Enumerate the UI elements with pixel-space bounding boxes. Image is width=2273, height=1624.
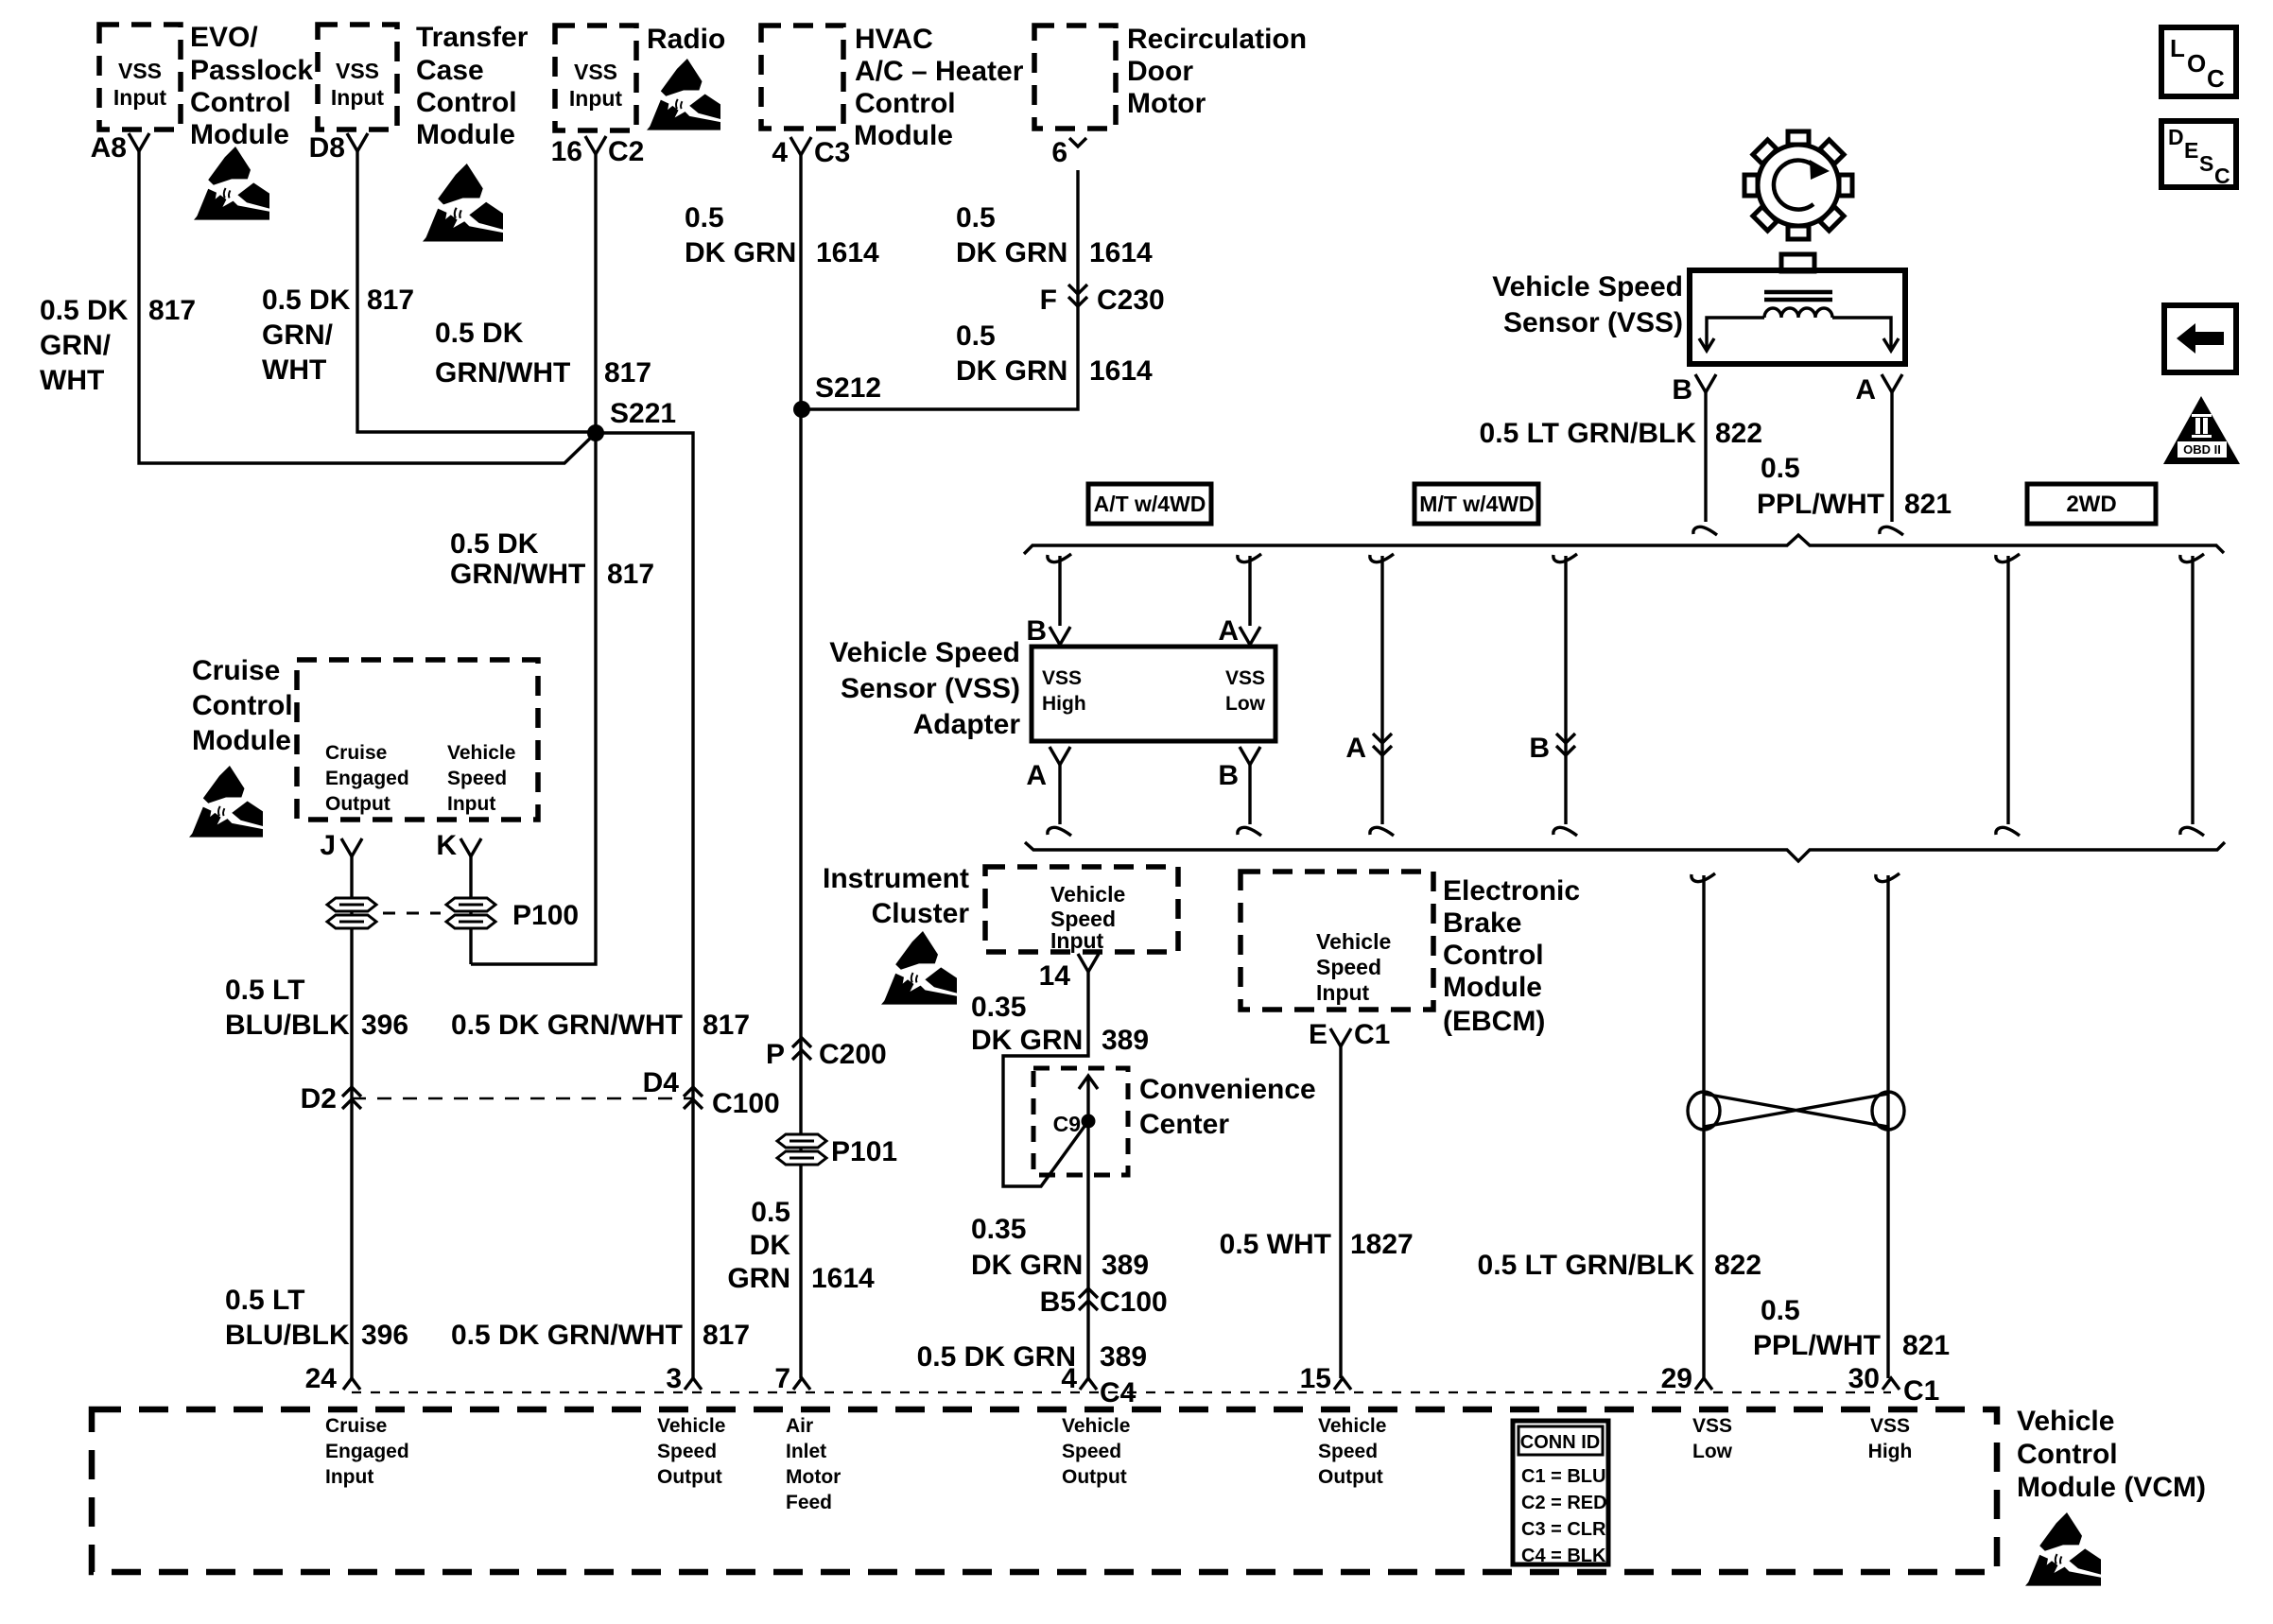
svg-text:Control: Control bbox=[416, 87, 517, 118]
svg-text:7: 7 bbox=[774, 1363, 790, 1394]
svg-text:Adapter: Adapter bbox=[913, 709, 1021, 740]
svg-text:BLU/BLK: BLU/BLK bbox=[225, 1010, 350, 1041]
svg-text:C2: C2 bbox=[608, 136, 644, 167]
svg-text:0.5 LT GRN/BLK: 0.5 LT GRN/BLK bbox=[1480, 418, 1697, 449]
svg-text:0.5: 0.5 bbox=[1761, 453, 1800, 484]
svg-text:2WD: 2WD bbox=[2066, 492, 2116, 517]
svg-text:Vehicle: Vehicle bbox=[657, 1415, 725, 1437]
svg-text:BLU/BLK: BLU/BLK bbox=[225, 1320, 350, 1351]
svg-text:24: 24 bbox=[305, 1363, 338, 1394]
svg-text:1614: 1614 bbox=[811, 1263, 875, 1294]
svg-text:3: 3 bbox=[666, 1363, 682, 1394]
svg-text:DK GRN: DK GRN bbox=[685, 237, 796, 268]
svg-text:D4: D4 bbox=[643, 1067, 680, 1098]
svg-text:M/T w/4WD: M/T w/4WD bbox=[1419, 492, 1534, 516]
svg-text:Input: Input bbox=[1316, 980, 1370, 1005]
svg-text:Recirculation: Recirculation bbox=[1127, 24, 1307, 55]
svg-text:Output: Output bbox=[657, 1466, 722, 1488]
svg-text:C4: C4 bbox=[1100, 1377, 1136, 1408]
svg-text:DK: DK bbox=[750, 1230, 791, 1261]
svg-text:C: C bbox=[2214, 164, 2230, 188]
svg-text:Speed: Speed bbox=[1318, 1441, 1378, 1462]
svg-text:Engaged: Engaged bbox=[325, 768, 409, 789]
svg-text:Output: Output bbox=[1062, 1466, 1127, 1488]
svg-text:Vehicle: Vehicle bbox=[2017, 1406, 2114, 1437]
svg-text:VSS: VSS bbox=[1692, 1415, 1732, 1437]
svg-text:0.5: 0.5 bbox=[1761, 1295, 1800, 1326]
svg-text:S221: S221 bbox=[610, 398, 676, 429]
svg-text:817: 817 bbox=[703, 1010, 750, 1041]
svg-text:DK GRN: DK GRN bbox=[956, 355, 1067, 387]
svg-text:C230: C230 bbox=[1097, 285, 1165, 316]
svg-text:Input: Input bbox=[569, 86, 623, 111]
svg-text:Control: Control bbox=[190, 87, 291, 118]
svg-text:Vehicle: Vehicle bbox=[1316, 929, 1391, 954]
svg-text:0.5 LT: 0.5 LT bbox=[225, 975, 304, 1006]
svg-text:Module (VCM): Module (VCM) bbox=[2017, 1472, 2206, 1503]
svg-text:0.5 DK GRN/WHT: 0.5 DK GRN/WHT bbox=[451, 1320, 683, 1351]
svg-text:Convenience: Convenience bbox=[1139, 1074, 1316, 1105]
svg-text:Center: Center bbox=[1139, 1109, 1229, 1140]
svg-text:Motor: Motor bbox=[786, 1466, 841, 1488]
svg-text:Case: Case bbox=[416, 55, 484, 86]
svg-text:Module: Module bbox=[190, 119, 289, 150]
svg-text:Output: Output bbox=[325, 793, 390, 815]
svg-text:C3: C3 bbox=[814, 137, 850, 168]
svg-text:0.5 DK GRN/WHT: 0.5 DK GRN/WHT bbox=[451, 1010, 683, 1041]
svg-text:P: P bbox=[766, 1039, 785, 1070]
svg-text:C4 = BLK: C4 = BLK bbox=[1521, 1546, 1606, 1566]
svg-text:Inlet: Inlet bbox=[786, 1441, 826, 1462]
svg-text:Module: Module bbox=[192, 725, 291, 756]
svg-text:Brake: Brake bbox=[1443, 907, 1521, 939]
svg-text:0.5 DK: 0.5 DK bbox=[450, 528, 539, 560]
svg-text:O: O bbox=[2187, 49, 2206, 78]
svg-text:4: 4 bbox=[772, 137, 788, 168]
svg-text:1614: 1614 bbox=[1089, 355, 1153, 387]
svg-text:HVAC: HVAC bbox=[855, 24, 933, 55]
svg-text:Cruise: Cruise bbox=[325, 742, 387, 764]
svg-text:817: 817 bbox=[148, 295, 196, 326]
svg-text:VSS: VSS bbox=[118, 59, 162, 83]
svg-text:C1: C1 bbox=[1354, 1019, 1390, 1050]
svg-text:0.5 LT GRN/BLK: 0.5 LT GRN/BLK bbox=[1478, 1250, 1695, 1281]
svg-text:821: 821 bbox=[1902, 1330, 1950, 1361]
svg-text:Vehicle: Vehicle bbox=[1062, 1415, 1130, 1437]
svg-text:817: 817 bbox=[604, 357, 651, 389]
svg-text:Control: Control bbox=[2017, 1439, 2118, 1470]
svg-text:817: 817 bbox=[607, 559, 654, 590]
svg-text:821: 821 bbox=[1904, 489, 1952, 520]
svg-text:Door: Door bbox=[1127, 56, 1193, 87]
svg-text:Low: Low bbox=[1692, 1441, 1733, 1462]
svg-text:C1: C1 bbox=[1903, 1375, 1939, 1407]
svg-text:Air: Air bbox=[786, 1415, 813, 1437]
svg-text:A: A bbox=[1345, 733, 1366, 764]
svg-text:Sensor (VSS): Sensor (VSS) bbox=[841, 673, 1020, 704]
svg-text:Input: Input bbox=[113, 85, 167, 110]
svg-text:C1 = BLU: C1 = BLU bbox=[1521, 1466, 1605, 1487]
svg-text:D2: D2 bbox=[301, 1083, 337, 1114]
svg-text:GRN/WHT: GRN/WHT bbox=[435, 357, 570, 389]
svg-text:OBD II: OBD II bbox=[2183, 442, 2221, 457]
svg-text:B5: B5 bbox=[1040, 1287, 1076, 1318]
svg-text:1827: 1827 bbox=[1350, 1229, 1414, 1260]
svg-text:Speed: Speed bbox=[1062, 1441, 1121, 1462]
svg-text:GRN/: GRN/ bbox=[262, 320, 334, 351]
svg-text:S: S bbox=[2199, 151, 2213, 176]
svg-text:Cruise: Cruise bbox=[325, 1415, 387, 1437]
svg-text:VSS: VSS bbox=[336, 59, 379, 83]
svg-text:822: 822 bbox=[1714, 1250, 1761, 1281]
svg-text:D: D bbox=[2168, 125, 2184, 149]
svg-text:High: High bbox=[1042, 693, 1086, 715]
svg-text:Cluster: Cluster bbox=[872, 898, 970, 929]
svg-text:WHT: WHT bbox=[262, 354, 326, 386]
svg-text:1614: 1614 bbox=[1089, 237, 1153, 268]
svg-text:389: 389 bbox=[1102, 1250, 1149, 1281]
svg-text:B: B bbox=[1026, 615, 1047, 647]
svg-text:A: A bbox=[1855, 374, 1876, 406]
svg-text:4: 4 bbox=[1061, 1363, 1077, 1394]
svg-text:WHT: WHT bbox=[40, 365, 104, 396]
svg-text:F: F bbox=[1040, 285, 1057, 316]
svg-text:Radio: Radio bbox=[647, 24, 725, 55]
svg-text:DK GRN: DK GRN bbox=[971, 1250, 1083, 1281]
svg-text:0.5 DK: 0.5 DK bbox=[262, 285, 351, 316]
svg-text:C3 = CLR: C3 = CLR bbox=[1521, 1519, 1606, 1540]
svg-text:Passlock: Passlock bbox=[190, 55, 313, 86]
svg-text:6: 6 bbox=[1051, 137, 1067, 168]
svg-text:Engaged: Engaged bbox=[325, 1441, 409, 1462]
svg-text:B: B bbox=[1529, 733, 1550, 764]
svg-text:Module: Module bbox=[854, 120, 953, 151]
svg-text:Motor: Motor bbox=[1127, 88, 1206, 119]
svg-text:0.5 DK GRN: 0.5 DK GRN bbox=[917, 1341, 1076, 1373]
svg-text:0.5 WHT: 0.5 WHT bbox=[1220, 1229, 1331, 1260]
svg-text:Module: Module bbox=[416, 119, 515, 150]
svg-text:Speed: Speed bbox=[447, 768, 507, 789]
svg-text:A/C – Heater: A/C – Heater bbox=[855, 56, 1024, 87]
svg-text:C: C bbox=[2207, 64, 2225, 93]
svg-text:817: 817 bbox=[703, 1320, 750, 1351]
svg-text:Vehicle: Vehicle bbox=[1318, 1415, 1386, 1437]
svg-text:Control: Control bbox=[855, 88, 956, 119]
svg-text:0.5: 0.5 bbox=[751, 1197, 790, 1228]
svg-text:Vehicle: Vehicle bbox=[447, 742, 515, 764]
svg-text:Control: Control bbox=[192, 690, 293, 721]
svg-text:Input: Input bbox=[447, 793, 495, 815]
svg-text:389: 389 bbox=[1102, 1025, 1149, 1056]
svg-text:Transfer: Transfer bbox=[416, 22, 529, 53]
svg-text:Speed: Speed bbox=[1316, 955, 1381, 979]
svg-text:396: 396 bbox=[361, 1010, 408, 1041]
svg-text:Low: Low bbox=[1225, 693, 1266, 715]
svg-text:GRN: GRN bbox=[727, 1263, 790, 1294]
svg-text:29: 29 bbox=[1661, 1363, 1692, 1394]
svg-text:C100: C100 bbox=[1100, 1287, 1168, 1318]
svg-text:P101: P101 bbox=[831, 1136, 897, 1167]
svg-text:16: 16 bbox=[551, 136, 582, 167]
svg-text:0.5 DK: 0.5 DK bbox=[435, 318, 524, 349]
svg-text:B: B bbox=[1218, 760, 1239, 791]
svg-text:K: K bbox=[436, 830, 457, 861]
svg-text:C2 = RED: C2 = RED bbox=[1521, 1493, 1607, 1513]
svg-text:L: L bbox=[2170, 34, 2185, 62]
svg-text:0.5: 0.5 bbox=[956, 202, 996, 233]
svg-text:C9: C9 bbox=[1053, 1112, 1081, 1136]
svg-text:C200: C200 bbox=[819, 1039, 887, 1070]
svg-text:VSS: VSS bbox=[1225, 667, 1265, 689]
svg-text:CONN ID: CONN ID bbox=[1520, 1432, 1600, 1453]
svg-text:389: 389 bbox=[1100, 1341, 1147, 1373]
svg-text:822: 822 bbox=[1715, 418, 1762, 449]
svg-text:Vehicle: Vehicle bbox=[1050, 882, 1125, 907]
svg-text:E: E bbox=[1309, 1019, 1327, 1050]
svg-text:A: A bbox=[1218, 615, 1239, 647]
svg-text:A8: A8 bbox=[91, 132, 127, 164]
svg-text:Instrument: Instrument bbox=[823, 863, 969, 894]
svg-text:B: B bbox=[1672, 374, 1692, 406]
svg-text:0.35: 0.35 bbox=[971, 992, 1026, 1023]
svg-text:GRN/WHT: GRN/WHT bbox=[450, 559, 585, 590]
svg-text:Feed: Feed bbox=[786, 1492, 832, 1513]
svg-text:0.5 LT: 0.5 LT bbox=[225, 1285, 304, 1316]
svg-text:14: 14 bbox=[1039, 960, 1071, 992]
svg-text:VSS: VSS bbox=[574, 60, 617, 84]
svg-text:Input: Input bbox=[331, 85, 385, 110]
svg-text:GRN/: GRN/ bbox=[40, 330, 112, 361]
svg-text:396: 396 bbox=[361, 1320, 408, 1351]
svg-text:0.5: 0.5 bbox=[685, 202, 724, 233]
svg-text:Control: Control bbox=[1443, 940, 1544, 971]
svg-text:D8: D8 bbox=[309, 132, 345, 164]
svg-text:817: 817 bbox=[367, 285, 414, 316]
svg-text:A: A bbox=[1026, 760, 1047, 791]
svg-text:DK GRN: DK GRN bbox=[971, 1025, 1083, 1056]
svg-text:PPL/WHT: PPL/WHT bbox=[1753, 1330, 1881, 1361]
svg-text:Sensor (VSS): Sensor (VSS) bbox=[1503, 307, 1683, 338]
svg-text:(EBCM): (EBCM) bbox=[1443, 1006, 1545, 1037]
svg-text:Input: Input bbox=[1050, 928, 1104, 953]
svg-text:C100: C100 bbox=[712, 1088, 780, 1119]
svg-text:Cruise: Cruise bbox=[192, 655, 280, 686]
svg-text:A/T w/4WD: A/T w/4WD bbox=[1094, 492, 1206, 516]
svg-text:PPL/WHT: PPL/WHT bbox=[1757, 489, 1884, 520]
svg-text:P100: P100 bbox=[512, 900, 579, 931]
svg-text:E: E bbox=[2184, 138, 2198, 163]
svg-text:EVO/: EVO/ bbox=[190, 22, 258, 53]
svg-text:Electronic: Electronic bbox=[1443, 875, 1580, 907]
svg-text:0.5 DK: 0.5 DK bbox=[40, 295, 129, 326]
svg-text:VSS: VSS bbox=[1042, 667, 1082, 689]
svg-text:0.5: 0.5 bbox=[956, 320, 996, 352]
svg-text:High: High bbox=[1868, 1441, 1913, 1462]
svg-text:Vehicle Speed: Vehicle Speed bbox=[829, 637, 1020, 668]
svg-text:DK GRN: DK GRN bbox=[956, 237, 1067, 268]
svg-text:S212: S212 bbox=[815, 372, 881, 404]
svg-text:Vehicle Speed: Vehicle Speed bbox=[1492, 271, 1683, 302]
svg-text:VSS: VSS bbox=[1870, 1415, 1910, 1437]
svg-text:0.35: 0.35 bbox=[971, 1214, 1026, 1245]
svg-text:Module: Module bbox=[1443, 972, 1542, 1003]
svg-text:15: 15 bbox=[1300, 1363, 1331, 1394]
svg-text:Input: Input bbox=[325, 1466, 373, 1488]
svg-text:J: J bbox=[320, 830, 336, 861]
svg-text:Speed: Speed bbox=[657, 1441, 717, 1462]
svg-text:30: 30 bbox=[1848, 1363, 1880, 1394]
svg-text:1614: 1614 bbox=[816, 237, 879, 268]
svg-text:Output: Output bbox=[1318, 1466, 1383, 1488]
